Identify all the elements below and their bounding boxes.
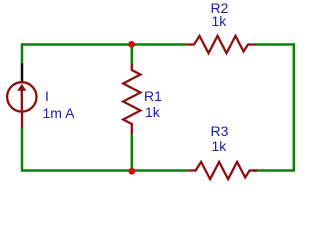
resistor R1 — [123, 64, 140, 135]
label R1 value 1k — [145, 105, 160, 119]
label R3 value 1k — [212, 139, 227, 153]
current source I lead black — [21, 63, 24, 81]
wire bottom horizontal left segment — [22, 169, 188, 172]
wire left vertical lower — [21, 128, 24, 172]
wire bottom horizontal right segment — [253, 169, 295, 172]
label I value 1m A — [43, 106, 75, 120]
resistor R3 — [188, 162, 257, 179]
label R2 value 1k — [212, 14, 227, 28]
label I refdes — [45, 89, 49, 103]
label R2 refdes — [211, 1, 229, 15]
wire right vertical — [293, 43, 296, 170]
current source I bottom lead — [21, 112, 23, 128]
node junction dot bottom (R1/bottom wire) — [128, 168, 135, 175]
resistor R2 — [187, 36, 256, 53]
wire top horizontal right segment — [256, 43, 295, 46]
wire R1 branch upper — [131, 45, 134, 64]
current source I arrow — [17, 84, 26, 111]
node junction dot top (R1/top wire) — [128, 41, 135, 48]
wire top horizontal left segment — [22, 43, 187, 46]
label R3 refdes — [211, 124, 229, 138]
wire left vertical upper — [21, 43, 24, 63]
current source I circle — [7, 82, 36, 111]
label R1 refdes — [144, 89, 162, 103]
wire R1 branch lower — [131, 134, 134, 171]
